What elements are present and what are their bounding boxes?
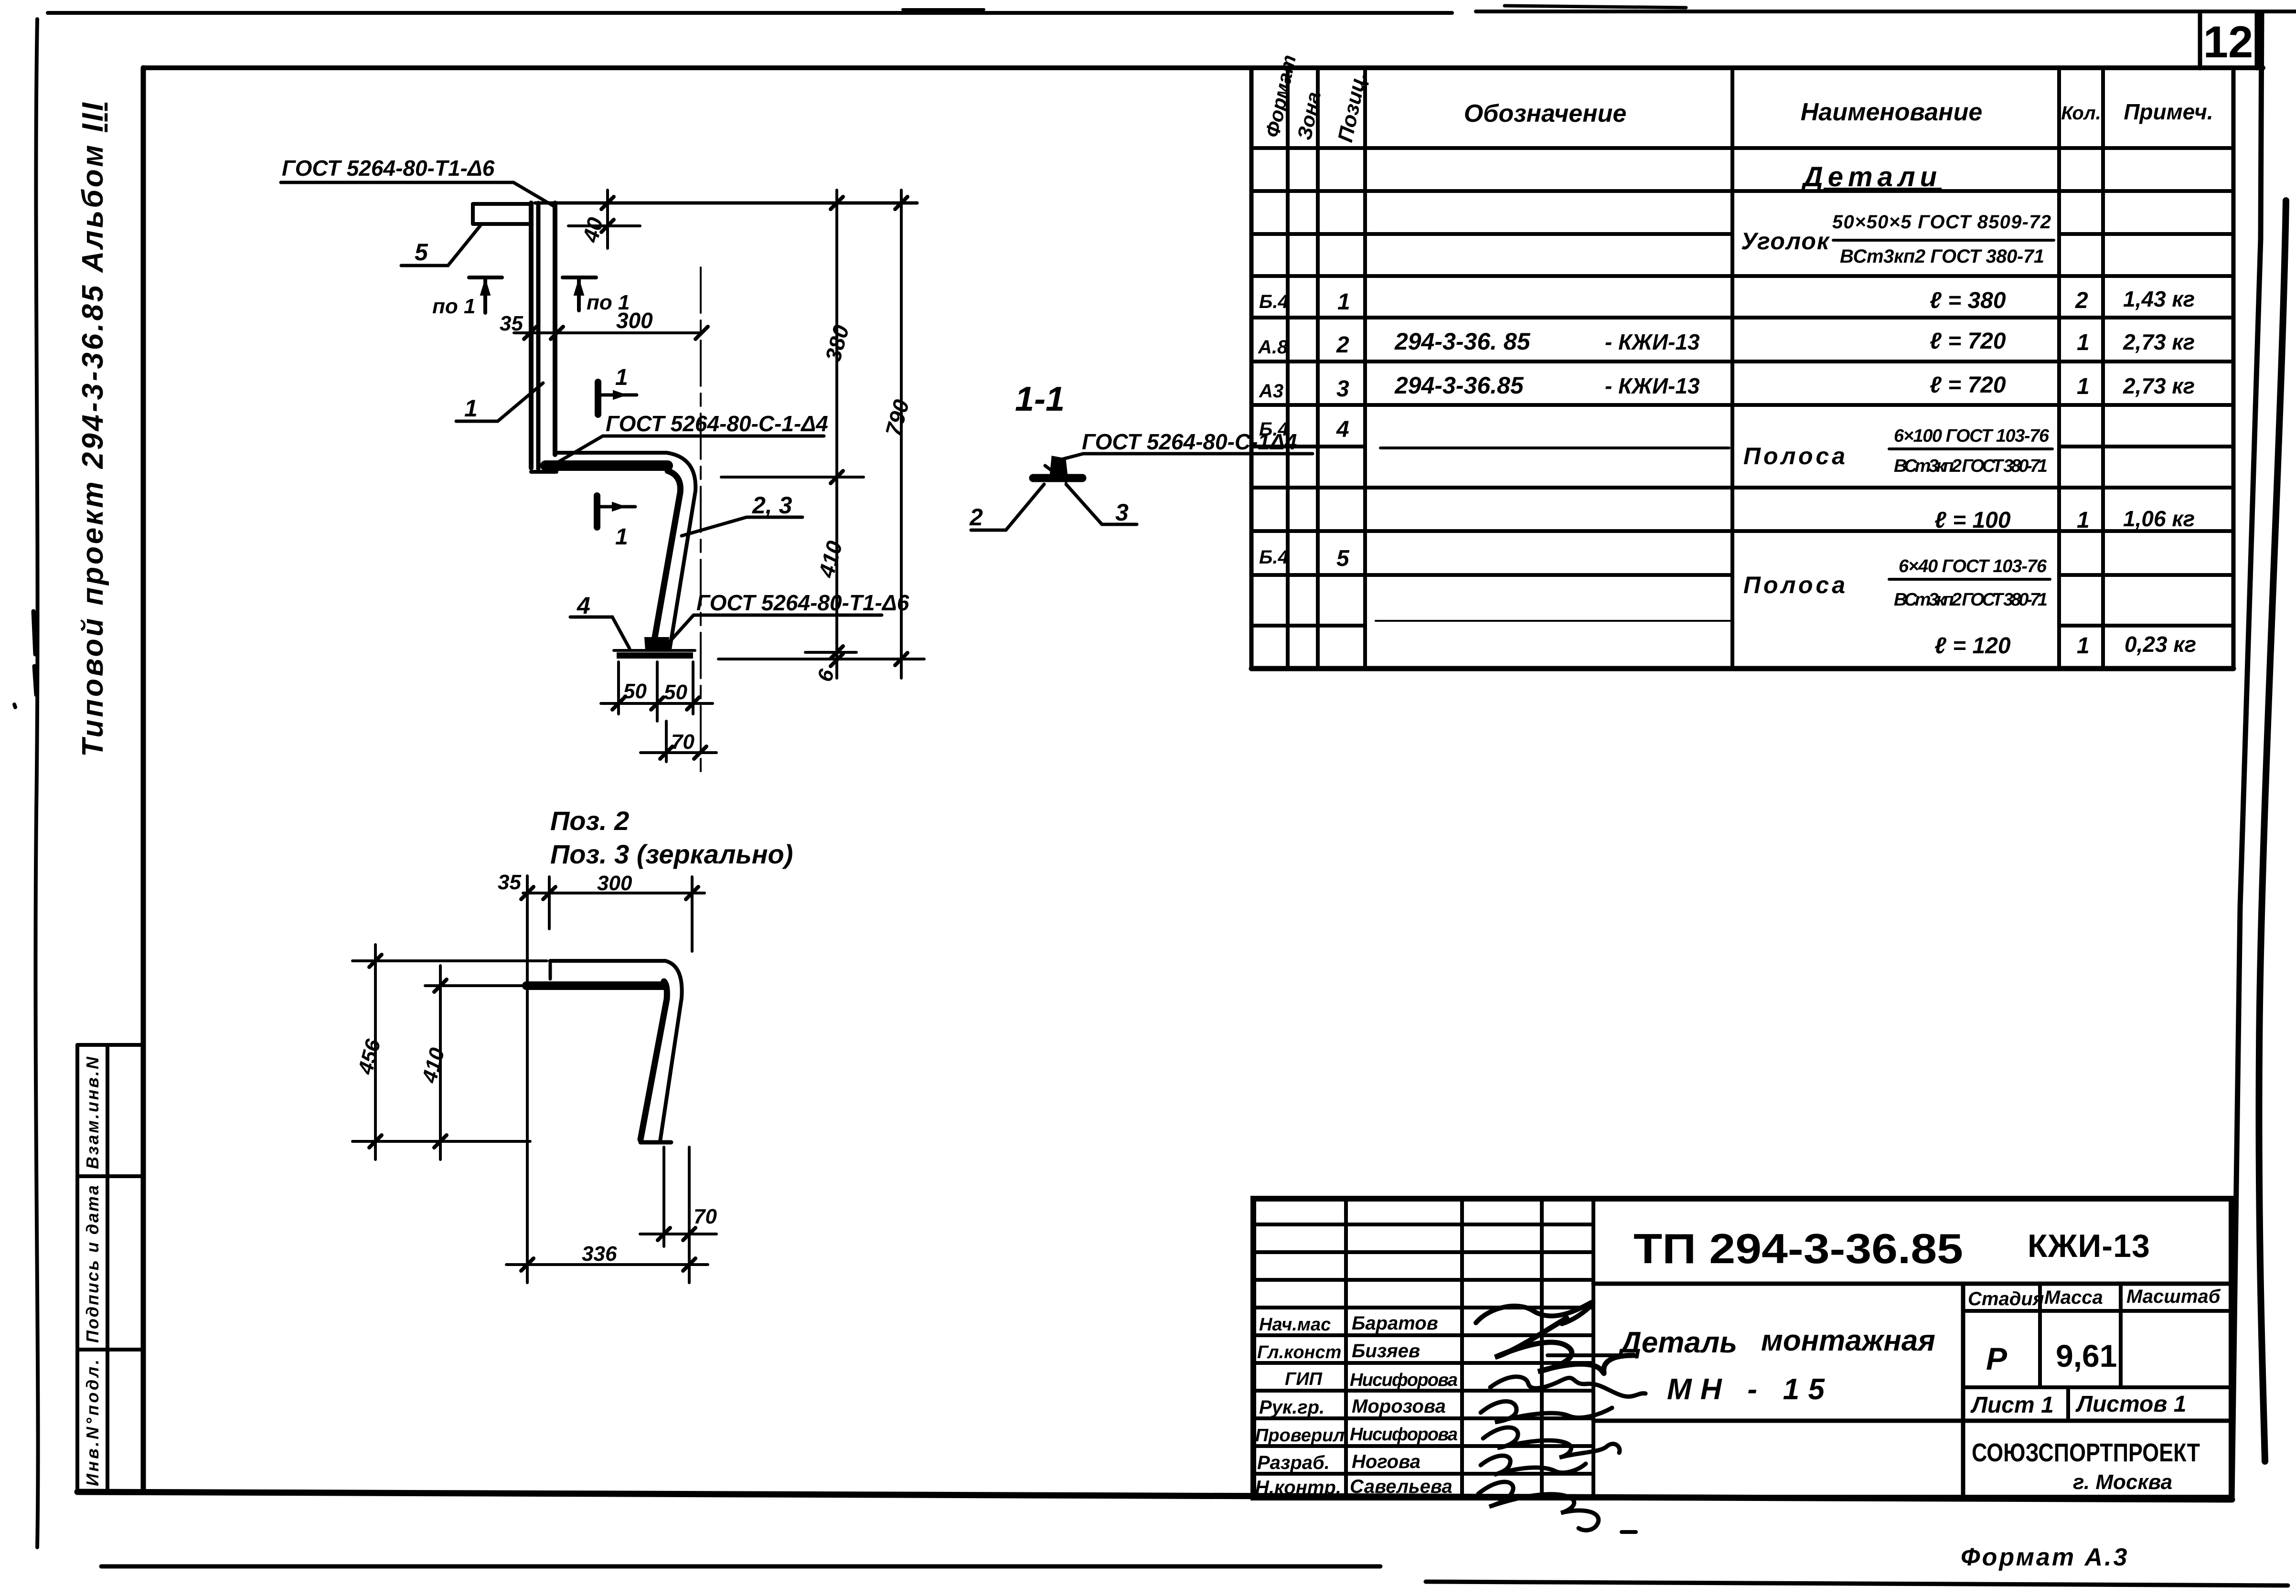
svg-text:1: 1 [2077, 374, 2090, 399]
svg-text:Полоса: Полоса [1743, 572, 1848, 598]
svg-text:Масштаб: Масштаб [2126, 1286, 2221, 1307]
svg-text:ГОСТ 5264-80-Т1-Δ6: ГОСТ 5264-80-Т1-Δ6 [282, 156, 495, 181]
svg-text:1: 1 [464, 395, 478, 422]
svg-text:Примеч.: Примеч. [2124, 99, 2213, 124]
svg-text:Нисифорова: Нисифорова [1350, 1370, 1458, 1390]
svg-text:А.8: А.8 [1258, 337, 1288, 358]
specification table row: Детали [1801, 161, 1942, 192]
main view: weld label GOST 5264-80-T1-D6 top [281, 156, 554, 206]
main view: dim 40 [568, 190, 640, 248]
svg-text:1: 1 [615, 365, 628, 390]
svg-text:ℓ = 100: ℓ = 100 [1934, 508, 2011, 533]
svg-text:Детали: Детали [1801, 161, 1942, 192]
svg-text:Обозначение: Обозначение [1464, 100, 1627, 128]
svg-text:Лист 1: Лист 1 [1970, 1393, 2054, 1418]
page number box 12 [2200, 13, 2257, 68]
svg-text:4: 4 [577, 592, 590, 619]
main view: leader 5 [401, 225, 481, 266]
svg-text:Уголок: Уголок [1741, 228, 1830, 255]
section view: angle cross-section with weld [1033, 457, 1082, 481]
title block name cell [1593, 1284, 2232, 1498]
svg-text:ГОСТ 5264-80-С-1-Δ4: ГОСТ 5264-80-С-1-Δ4 [606, 411, 828, 436]
svg-text:Савельева: Савельева [1350, 1476, 1452, 1497]
svg-text:2: 2 [2075, 288, 2088, 313]
main view: dim 35 and 300 [500, 308, 708, 339]
svg-text:2: 2 [1336, 332, 1349, 358]
section view 1-1 title [1015, 380, 1065, 418]
main view: right dim chain 790 [718, 190, 924, 678]
main view: long axis extension line [700, 267, 702, 776]
svg-text:70: 70 [671, 730, 694, 754]
svg-text:Рук.гр.: Рук.гр. [1259, 1397, 1324, 1418]
svg-text:Полоса: Полоса [1743, 443, 1848, 469]
svg-text:Кол.: Кол. [2061, 103, 2101, 124]
title block signatures squiggles [1476, 1302, 1645, 1532]
svg-text:294-3-36.85: 294-3-36.85 [1394, 372, 1524, 399]
main view: weld label GOST 5264-80-T1-D6 bottom [664, 590, 909, 648]
main view: leader 4 [570, 592, 630, 649]
svg-text:монтажная: монтажная [1761, 1324, 1935, 1357]
svg-text:300: 300 [597, 872, 632, 895]
title block list row [1970, 1387, 2186, 1421]
scan right page edge band [2259, 201, 2286, 1461]
specification row: poz 5 Полоса 6x40 [1259, 546, 2050, 610]
svg-text:Поз. 3 (зеркально): Поз. 3 (зеркально) [550, 839, 793, 869]
pos 2-3 view titles [550, 806, 793, 869]
main view: right dim chain 380/410/6 [535, 190, 917, 684]
pos view: left dim 456 [352, 945, 547, 1160]
svg-text:Подпись и дата: Подпись и дата [83, 1185, 102, 1343]
svg-text:50×50×5 ГОСТ 8509-72: 50×50×5 ГОСТ 8509-72 [1832, 212, 2051, 233]
pos view: part outline bent strip [526, 961, 682, 1142]
svg-text:Стадия: Стадия [1968, 1288, 2044, 1309]
svg-text:ВСт3кп2 ГОСТ 380-71: ВСт3кп2 ГОСТ 380-71 [1894, 590, 2048, 610]
title block header band TP 294-3-36.85 KZHI-13 [1593, 1225, 2232, 1284]
format A3 note [1961, 1543, 2129, 1571]
svg-text:1: 1 [2077, 508, 2090, 533]
svg-text:1-1: 1-1 [1015, 380, 1065, 418]
svg-text:50: 50 [623, 680, 647, 703]
svg-text:Разраб.: Разраб. [1257, 1452, 1330, 1473]
svg-text:Гл.конст: Гл.конст [1257, 1342, 1341, 1362]
svg-text:ТП 294-3-36.85: ТП 294-3-36.85 [1634, 1225, 1963, 1272]
main view: bottom dim 70 [641, 721, 716, 762]
svg-text:ГИП: ГИП [1285, 1369, 1323, 1389]
svg-text:Баратов: Баратов [1352, 1313, 1438, 1334]
svg-text:0,23 кг: 0,23 кг [2125, 632, 2196, 657]
specification row: poz 2 [1258, 328, 2195, 358]
main view: leader 2,3 [682, 492, 802, 536]
svg-text:1: 1 [2077, 633, 2090, 659]
svg-text:5: 5 [415, 239, 428, 266]
svg-text:50: 50 [664, 681, 687, 704]
svg-text:12: 12 [2203, 17, 2253, 67]
title block organization [1972, 1438, 2200, 1494]
svg-text:3: 3 [1115, 499, 1129, 526]
specification row: poz 4 Полоса 6x100 [1259, 417, 2052, 476]
svg-text:Листов 1: Листов 1 [2075, 1392, 2186, 1417]
svg-text:5: 5 [1336, 546, 1350, 571]
svg-text:Ногова: Ногова [1352, 1451, 1420, 1472]
main view: base plate pos4 [614, 638, 695, 659]
specification row: l=100 [1934, 506, 2195, 533]
svg-text:300: 300 [616, 308, 653, 333]
svg-text:ГОСТ 5264-80-Т1-Δ6: ГОСТ 5264-80-Т1-Δ6 [696, 590, 909, 615]
title block outer border [1253, 1199, 2232, 1498]
specification table header texts [1261, 53, 2213, 144]
svg-text:Б.4: Б.4 [1259, 547, 1289, 568]
svg-text:1,43 кг: 1,43 кг [2123, 287, 2195, 311]
specification row: poz 3 [1259, 372, 2195, 402]
svg-text:1,06 кг: 1,06 кг [2123, 506, 2195, 531]
main view: leader 1 [456, 383, 543, 422]
svg-text:Поз. 2: Поз. 2 [550, 806, 629, 836]
section view: weld label GOST 5264-80-C-1D4 [1061, 429, 1313, 459]
svg-text:Морозова: Морозова [1352, 1396, 1446, 1417]
svg-text:СОЮЗСПОРТПРОЕКТ: СОЮЗСПОРТПРОЕКТ [1972, 1438, 2200, 1467]
svg-text:Р: Р [1986, 1341, 2008, 1376]
svg-text:35: 35 [500, 312, 523, 335]
scan bottom edge lines [101, 1566, 2288, 1585]
svg-text:ГОСТ 5264-80-С-1Δ4: ГОСТ 5264-80-С-1Δ4 [1082, 429, 1297, 454]
svg-text:70: 70 [694, 1205, 717, 1228]
svg-text:6×40 ГОСТ 103-76: 6×40 ГОСТ 103-76 [1899, 556, 2047, 576]
pos view: left dim 410 [417, 966, 524, 1160]
svg-text:ℓ = 720: ℓ = 720 [1930, 372, 2006, 398]
left margin stamp [77, 1045, 141, 1493]
pos view: bottom dim 336 [506, 1147, 708, 1283]
svg-text:9,61: 9,61 [2056, 1338, 2117, 1373]
svg-text:1: 1 [615, 524, 628, 550]
svg-text:Нисифорова: Нисифорова [1350, 1425, 1458, 1445]
specification row: poz 1 [1259, 287, 2195, 315]
specification row: l=120 [1934, 632, 2196, 659]
svg-text:4: 4 [1336, 417, 1349, 442]
svg-text:Б.4: Б.4 [1259, 291, 1289, 312]
svg-text:2: 2 [969, 504, 983, 531]
svg-text:по 1: по 1 [432, 295, 475, 318]
svg-text:Нач.мас: Нач.мас [1259, 1315, 1331, 1335]
svg-text:- КЖИ-13: - КЖИ-13 [1605, 330, 1700, 354]
svg-text:35: 35 [498, 871, 521, 894]
svg-text:294-3-36. 85: 294-3-36. 85 [1394, 328, 1531, 355]
section view: leader 3 [1066, 484, 1137, 526]
svg-text:336: 336 [582, 1242, 617, 1266]
svg-text:Н.контр.: Н.контр. [1255, 1477, 1341, 1498]
svg-text:Деталь: Деталь [1618, 1326, 1737, 1359]
svg-text:2,73 кг: 2,73 кг [2123, 373, 2195, 398]
svg-text:г. Москва: г. Москва [2073, 1470, 2172, 1494]
main view: po1 weld mark left [432, 277, 502, 318]
pos view: dim 70 [640, 1147, 717, 1246]
main view: bottom dims 50 50 [601, 662, 713, 721]
svg-text:Формат А.3: Формат А.3 [1961, 1543, 2129, 1571]
specification row: Уголок 50x50x5 [1741, 212, 2054, 267]
svg-text:- КЖИ-13: - КЖИ-13 [1605, 373, 1700, 398]
svg-text:ℓ = 120: ℓ = 120 [1934, 633, 2011, 659]
svg-text:1: 1 [1337, 289, 1350, 315]
title block right section stadia massa masshtab [1963, 1284, 2232, 1387]
svg-text:Бизяев: Бизяев [1352, 1341, 1420, 1362]
scan left edge line [14, 19, 38, 1547]
svg-text:КЖИ-13: КЖИ-13 [2028, 1228, 2150, 1264]
vertical album designation text [76, 102, 109, 757]
svg-text:ВСт3кп2 ГОСТ 380-71: ВСт3кп2 ГОСТ 380-71 [1894, 456, 2048, 476]
main view: weld label GOST 5264-80-C-1-D4 [559, 411, 828, 461]
pos view: top dims 35 300 [498, 871, 705, 1283]
title block signature grid [1253, 1199, 1593, 1498]
main view: dim 6 text [0, 0, 0, 0]
section view: leader 2 [969, 484, 1044, 531]
svg-text:Масса: Масса [2044, 1287, 2103, 1308]
main view: section mark 1 lower [597, 496, 635, 550]
svg-text:А3: А3 [1259, 381, 1283, 402]
main view: top plate pos5 [473, 204, 530, 224]
svg-text:2,73 кг: 2,73 кг [2123, 330, 2195, 354]
main view: vertical angle pos1 [531, 203, 556, 472]
scan top edge line [48, 6, 2296, 13]
svg-text:2, 3: 2, 3 [752, 492, 792, 519]
svg-text:1: 1 [2077, 330, 2090, 355]
main view: section mark 1 upper [598, 365, 637, 415]
svg-text:ВСт3кп2 ГОСТ 380-71: ВСт3кп2 ГОСТ 380-71 [1840, 246, 2044, 267]
main view: bent plate pos2-3 horizontal run and bend [545, 453, 695, 649]
title block signature texts [1255, 1313, 1458, 1498]
svg-text:6×100 ГОСТ 103-76: 6×100 ГОСТ 103-76 [1894, 426, 2050, 446]
svg-text:3: 3 [1336, 376, 1349, 402]
svg-text:ℓ = 380: ℓ = 380 [1930, 288, 2006, 313]
svg-text:Проверил: Проверил [1255, 1426, 1345, 1446]
specification table grid [1251, 68, 2233, 669]
svg-text:Наименование: Наименование [1801, 98, 1983, 126]
svg-text:ℓ = 720: ℓ = 720 [1930, 329, 2006, 354]
main view: po1 weld mark right [563, 277, 630, 314]
